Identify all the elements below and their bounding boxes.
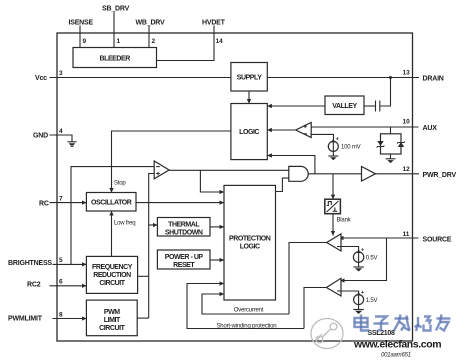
pin number 3 bbox=[59, 70, 63, 77]
node 0.5V label bbox=[366, 256, 378, 262]
watermark url text bbox=[353, 339, 441, 351]
buffer PWR_DRV driver bbox=[362, 167, 376, 182]
block BLEEDER bbox=[73, 48, 157, 68]
gate AND bbox=[289, 166, 308, 181]
svg-text:SB_DRV: SB_DRV bbox=[102, 6, 130, 13]
pin BRIGHTNESS label bbox=[8, 260, 52, 267]
capacitor valley sense bbox=[376, 101, 380, 112]
watermark glyph you bbox=[436, 315, 451, 331]
wire overcurrent feedback to protection bbox=[202, 294, 289, 314]
pin Vcc label bbox=[35, 75, 47, 82]
svg-text:SHUTDOWN: SHUTDOWN bbox=[165, 229, 203, 236]
svg-text:13: 13 bbox=[403, 70, 411, 77]
voltage source 1.5V bbox=[354, 290, 365, 305]
svg-text:PWM: PWM bbox=[104, 309, 120, 316]
wire comp2 output to short-winding feedback bbox=[304, 288, 326, 329]
wire stop line logic to oscillator bbox=[112, 131, 231, 193]
pin PWMLIMIT label bbox=[8, 316, 43, 323]
svg-text:CIRCUIT: CIRCUIT bbox=[99, 325, 125, 332]
svg-text:6: 6 bbox=[59, 279, 63, 286]
wire BRIGHTNESS to frequency reduction bbox=[53, 263, 87, 265]
block SUPPLY bbox=[231, 63, 267, 92]
wire PWMLIMIT to pwm limit circuit bbox=[53, 318, 87, 320]
svg-text:11: 11 bbox=[403, 231, 410, 238]
diode zener right bbox=[397, 142, 405, 148]
wire low freq frequency reduction to oscillator bbox=[111, 211, 113, 256]
wire comparator output to AND gate bbox=[169, 169, 289, 171]
svg-text:+: + bbox=[361, 290, 364, 296]
pin PWR_DRV label bbox=[423, 172, 457, 179]
wire 1.5V to ground bbox=[358, 305, 360, 310]
block THERMAL SHUTDOWN bbox=[157, 218, 210, 237]
wire power-up reset to protection logic bbox=[210, 259, 224, 261]
node Stop label bbox=[114, 181, 126, 187]
wire RC to oscillator bbox=[50, 202, 87, 204]
svg-text:PWR_DRV: PWR_DRV bbox=[423, 172, 457, 179]
wire 0.5V to ground bbox=[358, 262, 360, 267]
wire source branch to comp2 bbox=[340, 238, 387, 281]
svg-text:5: 5 bbox=[59, 257, 63, 264]
svg-text:PWMLIMIT: PWMLIMIT bbox=[8, 316, 43, 323]
pin number 9 bbox=[83, 38, 87, 45]
wire SUPPLY to LOGIC bbox=[248, 91, 250, 104]
pin SOURCE label bbox=[423, 236, 452, 243]
wire VALLEY to LOGIC bbox=[267, 105, 325, 107]
wire PWR_DRV line bbox=[376, 173, 420, 175]
svg-text:10: 10 bbox=[403, 119, 411, 126]
diode zener clamp box bbox=[381, 134, 402, 154]
wire SOURCE line bbox=[339, 237, 418, 239]
svg-text:001aam651: 001aam651 bbox=[381, 353, 411, 359]
node 001aam651 drawing code bbox=[381, 353, 411, 359]
diode zener left bbox=[377, 141, 385, 148]
watermark glyph fa bbox=[394, 315, 410, 331]
svg-text:THERMAL: THERMAL bbox=[168, 221, 200, 228]
svg-text:SUPPLY: SUPPLY bbox=[237, 75, 262, 82]
svg-text:14: 14 bbox=[216, 38, 224, 45]
pin number 5 bbox=[59, 257, 63, 264]
wire AUX line bbox=[311, 126, 418, 128]
svg-text:www.elecfans.com: www.elecfans.com bbox=[353, 339, 441, 351]
wire short-winding feedback to protection bbox=[187, 284, 304, 329]
svg-text:AUX: AUX bbox=[423, 125, 438, 132]
svg-text:Blank: Blank bbox=[337, 218, 352, 224]
pin number 4 bbox=[59, 128, 63, 135]
wire blank to comparator strobe bbox=[332, 214, 334, 236]
wire pwm limit output to ramp bus bbox=[137, 317, 149, 319]
svg-text:Overcurrent: Overcurrent bbox=[234, 308, 264, 314]
svg-text:DRAIN: DRAIN bbox=[423, 75, 444, 82]
wire source to ground bbox=[332, 151, 334, 155]
svg-text:1: 1 bbox=[117, 38, 121, 45]
wire AND output to driver bbox=[308, 173, 361, 175]
svg-text:WB_DRV: WB_DRV bbox=[136, 20, 166, 27]
block OSCILLATOR bbox=[86, 193, 136, 212]
svg-text:BLEEDER: BLEEDER bbox=[100, 55, 131, 62]
op-amp short-winding comparator bbox=[326, 278, 341, 296]
block PWM LIMIT CIRCUIT bbox=[86, 300, 137, 336]
svg-text:12: 12 bbox=[403, 166, 411, 173]
pin number 14 bbox=[216, 38, 224, 45]
svg-text:FREQUENCY: FREQUENCY bbox=[92, 264, 133, 271]
pin number 12 bbox=[403, 166, 411, 173]
svg-text:HVDET: HVDET bbox=[202, 20, 226, 27]
block POWER-UP RESET bbox=[157, 250, 210, 269]
pin number 6 bbox=[59, 279, 63, 286]
pin number 7 bbox=[59, 196, 63, 203]
node 1.5V label bbox=[366, 298, 378, 304]
ground GND pin bbox=[68, 142, 77, 147]
node SSL2108 type label bbox=[368, 330, 395, 337]
ground under 1.5V bbox=[353, 310, 364, 315]
svg-text:LOGIC: LOGIC bbox=[239, 129, 259, 136]
pin number 2 bbox=[152, 38, 156, 45]
wire SB_DRV stub pin 1 bbox=[113, 12, 115, 48]
pin number 11 bbox=[403, 231, 410, 238]
svg-text:2: 2 bbox=[152, 38, 156, 45]
svg-text:POWER - UP: POWER - UP bbox=[165, 254, 204, 261]
wire brightness bus to comparator minus bbox=[71, 167, 154, 265]
wire RC2 to frequency reduction bbox=[50, 285, 87, 287]
wire comparator output branch to protection logic bbox=[200, 170, 224, 192]
svg-text:BRIGHTNESS: BRIGHTNESS bbox=[8, 260, 52, 267]
svg-text:3: 3 bbox=[59, 70, 63, 77]
wire protection logic to AND gate lower input bbox=[276, 178, 289, 191]
node Overcurrent label bbox=[234, 308, 264, 314]
svg-text:Short-winding protection: Short-winding protection bbox=[217, 323, 277, 329]
watermark logo circle bbox=[311, 319, 343, 349]
op-amp PWM comparator bbox=[154, 161, 169, 179]
svg-text:LOGIC: LOGIC bbox=[240, 244, 260, 251]
svg-text:RESET: RESET bbox=[173, 262, 195, 269]
wire thermal connector to ramp bus bbox=[149, 224, 158, 226]
svg-text:CIRCUIT: CIRCUIT bbox=[99, 280, 125, 287]
wire HVDET stub pin 14 bbox=[157, 26, 215, 61]
pin AUX label bbox=[423, 125, 438, 132]
block FREQUENCY REDUCTION CIRCUIT bbox=[86, 256, 137, 293]
node Short-winding protection label bbox=[217, 323, 277, 329]
pin number 1 bbox=[117, 38, 121, 45]
wire comp2 lower input to 1.5V bbox=[337, 291, 359, 294]
svg-text:SSL2108: SSL2108 bbox=[368, 330, 395, 337]
svg-text:0.5V: 0.5V bbox=[366, 256, 378, 262]
voltage source 0.5V bbox=[353, 247, 364, 262]
watermark glyph shao bbox=[415, 317, 431, 332]
wire DRAIN line bbox=[267, 77, 419, 79]
block Blank one-shot bbox=[325, 199, 341, 214]
pin RC label bbox=[39, 201, 49, 208]
pin number 13 bbox=[403, 70, 411, 77]
wire ramp bus to comparator plus bbox=[149, 174, 155, 319]
wire ISENSE stub pin 9 bbox=[79, 26, 81, 48]
block VALLEY bbox=[325, 96, 364, 115]
pin ISENSE label bbox=[69, 20, 94, 27]
pin WB_DRV label bbox=[136, 20, 166, 27]
wire AUX to zener clamp bbox=[390, 127, 392, 134]
wire GND bbox=[50, 135, 73, 142]
wire Vcc to SUPPLY bbox=[50, 77, 231, 79]
ground under 0.5V bbox=[353, 267, 364, 272]
wire VALLEY to capacitor bbox=[364, 105, 375, 107]
svg-text:9: 9 bbox=[83, 38, 87, 45]
svg-text:LIMIT: LIMIT bbox=[104, 317, 121, 324]
IC outline border bbox=[57, 33, 413, 341]
pin DRAIN label bbox=[423, 75, 444, 82]
node drain-valley junction bbox=[389, 76, 392, 79]
svg-text:1.5V: 1.5V bbox=[366, 298, 378, 304]
pin RC2 label bbox=[27, 282, 41, 289]
pin SB_DRV label bbox=[102, 6, 130, 13]
block PROTECTION LOGIC bbox=[224, 185, 276, 300]
wire thermal shutdown to protection logic bbox=[210, 226, 224, 228]
wire frequency reduction output to ramp bus bbox=[138, 275, 149, 277]
svg-text:VALLEY: VALLEY bbox=[332, 103, 357, 110]
wire capacitor to drain bbox=[380, 78, 390, 107]
svg-text:Low freq: Low freq bbox=[114, 221, 135, 227]
wire comp1 lower input to 0.5V bbox=[337, 247, 359, 252]
wire WB_DRV stub pin 2 bbox=[148, 26, 150, 48]
svg-text:100 mV: 100 mV bbox=[341, 145, 361, 151]
svg-text:7: 7 bbox=[59, 196, 63, 203]
node Low freq label bbox=[114, 221, 135, 227]
svg-text:Vcc: Vcc bbox=[35, 75, 47, 82]
watermark glyph dian bbox=[355, 315, 370, 331]
svg-text:RC2: RC2 bbox=[27, 282, 41, 289]
block LOGIC bbox=[231, 104, 267, 160]
svg-text:RC: RC bbox=[39, 201, 49, 208]
wire comparator minus to 100mV source bbox=[311, 134, 333, 141]
pin number 10 bbox=[403, 119, 411, 126]
svg-text:8: 8 bbox=[59, 312, 63, 319]
wire AUX comparator to LOGIC bbox=[267, 129, 295, 131]
wire zener to ground bbox=[390, 154, 392, 159]
wire PWR_DRV to blank bbox=[332, 174, 334, 199]
pin GND label bbox=[33, 133, 48, 140]
node 100 mV label bbox=[341, 145, 361, 151]
svg-text:ISENSE: ISENSE bbox=[69, 20, 94, 27]
svg-text:4: 4 bbox=[59, 128, 63, 135]
svg-text:REDUCTION: REDUCTION bbox=[93, 272, 131, 279]
pin HVDET label bbox=[202, 20, 226, 27]
wire comp1 output to overcurrent feedback bbox=[289, 243, 327, 315]
svg-text:+: + bbox=[361, 247, 364, 253]
op-amp AUX comparator bbox=[296, 123, 312, 138]
voltage source 100 mV bbox=[328, 136, 339, 151]
node Blank label bbox=[337, 218, 352, 224]
svg-text:PROTECTION: PROTECTION bbox=[229, 236, 271, 243]
pin number 8 bbox=[59, 312, 63, 319]
ground under zener clamp bbox=[386, 159, 396, 163]
svg-text:Stop: Stop bbox=[114, 181, 126, 187]
svg-text:+: + bbox=[336, 136, 339, 142]
wire oscillator output to protection logic bbox=[136, 202, 224, 204]
svg-text:OSCILLATOR: OSCILLATOR bbox=[91, 199, 132, 206]
wire AND output feedback to LOGIC bbox=[267, 156, 315, 174]
ground under 100mV source bbox=[328, 156, 338, 160]
svg-text:SOURCE: SOURCE bbox=[423, 236, 452, 243]
svg-text:GND: GND bbox=[33, 133, 48, 140]
watermark glyph zi bbox=[374, 317, 389, 332]
op-amp overcurrent comparator bbox=[327, 234, 341, 251]
